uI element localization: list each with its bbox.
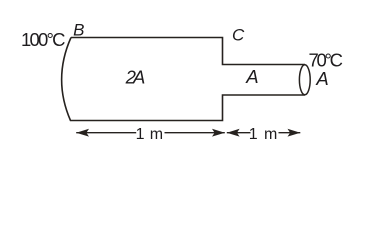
svg-text:2A: 2A bbox=[125, 67, 146, 88]
svg-text:1 m: 1 m bbox=[249, 126, 277, 143]
ellipse end cap (right face of small rod) bbox=[299, 65, 310, 95]
svg-text:1 m: 1 m bbox=[136, 126, 164, 143]
svg-text:A: A bbox=[315, 68, 328, 89]
dimension arrow 1 (left, 1 m) bbox=[76, 129, 225, 137]
svg-text:C: C bbox=[232, 25, 245, 44]
dimension arrow 2 (right, 1 m) bbox=[227, 129, 300, 137]
svg-text:100°C: 100°C bbox=[21, 29, 66, 50]
svg-text:A: A bbox=[245, 66, 258, 87]
svg-text:B: B bbox=[73, 20, 84, 39]
rod outline (stepped bar: big section 2A, small section A) bbox=[62, 38, 305, 121]
